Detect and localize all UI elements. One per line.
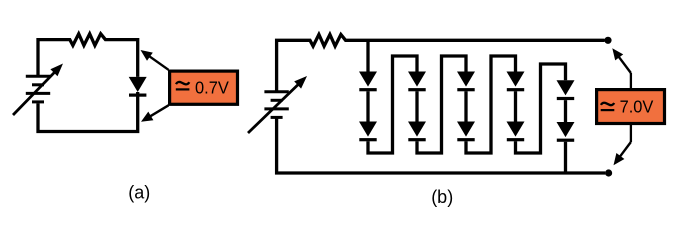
svg-text:(a): (a) bbox=[128, 183, 150, 203]
svg-text:7.0V: 7.0V bbox=[620, 97, 654, 117]
svg-text:(b): (b) bbox=[431, 187, 453, 207]
svg-text:0.7V: 0.7V bbox=[195, 78, 229, 98]
